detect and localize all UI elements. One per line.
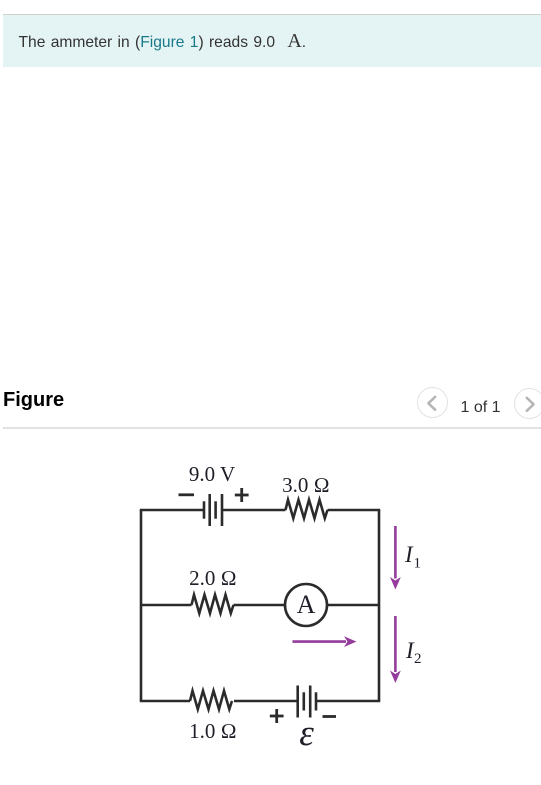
ammeter circle	[285, 584, 327, 626]
wire right vertical	[378, 510, 381, 701]
wire top resistor to right	[328, 509, 381, 512]
wire middle left to resistor	[141, 604, 192, 607]
battery B1 9.0V plates	[204, 494, 222, 526]
wire left vertical	[140, 510, 143, 701]
wire top left to battery	[140, 509, 204, 512]
pager next button	[514, 388, 541, 419]
resistor R 3.0 ohm zigzag	[286, 500, 328, 518]
wire top battery to resistor	[222, 509, 286, 512]
svg-text:1: 1	[414, 556, 422, 572]
svg-text:3.0 Ω: 3.0 Ω	[282, 473, 330, 497]
svg-text:ε: ε	[299, 713, 314, 754]
divider	[3, 427, 541, 429]
problem statement banner	[3, 14, 541, 67]
svg-text:2: 2	[414, 651, 422, 667]
current arrow I2	[390, 616, 401, 683]
resistor R 1.0 ohm zigzag	[190, 691, 232, 709]
wire middle ammeter to right	[327, 604, 379, 607]
battery B2 emf plates	[298, 686, 316, 718]
svg-text:I: I	[404, 542, 414, 567]
battery B1 minus sign	[179, 493, 195, 496]
pager previous button	[417, 387, 448, 418]
svg-text:1.0 Ω: 1.0 Ω	[189, 719, 237, 743]
current arrow horizontal	[293, 636, 357, 647]
svg-text:2.0 Ω: 2.0 Ω	[189, 566, 237, 590]
battery B1 plus sign	[235, 488, 249, 502]
svg-text:A: A	[297, 590, 316, 619]
Figure heading	[3, 389, 64, 412]
wire bottom battery to right	[316, 700, 380, 703]
pager label	[458, 399, 503, 417]
battery B2 minus sign	[323, 715, 337, 718]
current arrow I1	[390, 526, 401, 590]
wire middle resistor to ammeter	[234, 604, 286, 607]
resistor R 2.0 ohm zigzag	[192, 595, 234, 613]
battery B2 plus sign	[270, 709, 284, 723]
svg-text:9.0 V: 9.0 V	[189, 462, 235, 486]
wire bottom resistor to battery	[234, 700, 298, 703]
wire bottom left to resistor	[140, 700, 190, 703]
